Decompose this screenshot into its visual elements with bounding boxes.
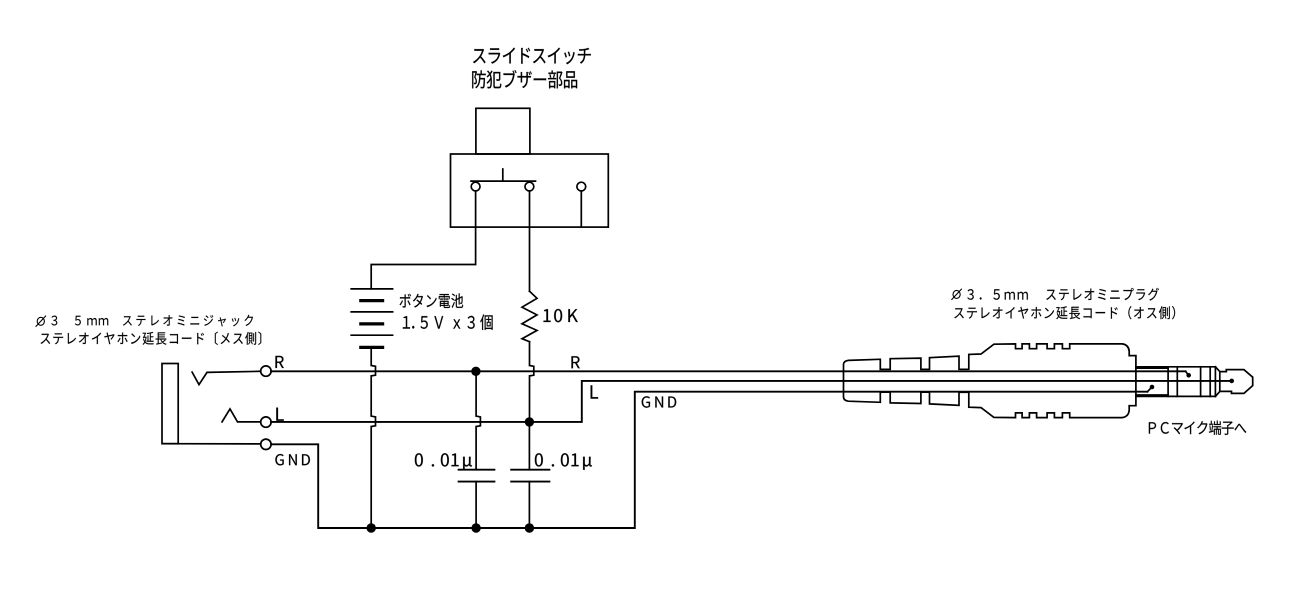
label: GND net (mid): [642, 396, 677, 407]
plug neck taper top: [1215, 367, 1219, 372]
plug neck taper bottom: [1215, 391, 1219, 396]
plug insulator ring line a: [1167, 367, 1169, 397]
battery BT1 cell2 short plate (-): [361, 322, 383, 325]
wire: jack body to GND terminal: [163, 443, 261, 445]
label: jack R terminal: [275, 356, 283, 368]
plug sleeve inner top line: [1136, 367, 1168, 369]
wire: C1 bottom to ground rail: [475, 482, 477, 528]
plug insulator ring line c: [1200, 367, 1202, 397]
junction node: R line / C1: [471, 367, 480, 376]
capacitor C1 top plate: [459, 469, 495, 471]
jack terminal GND: [261, 439, 271, 449]
battery BT1 cell1 long plate (+): [351, 288, 392, 290]
resistor R1 10K zigzag: [522, 291, 537, 342]
plug insulator ring line d: [1209, 367, 1211, 397]
label: resistor value 10K: [544, 309, 578, 322]
plug shaft top outline: [1136, 366, 1216, 368]
3.5mm stereo mini plug P1: cable boot and body outline: [844, 344, 1136, 418]
jack terminal L: [261, 417, 271, 427]
jack R spring contact (V): [192, 371, 261, 384]
switch terminal 2: [525, 182, 534, 191]
switch lever bar: [471, 180, 536, 182]
switch terminal 3 (unused): [577, 182, 586, 191]
battery BT1 cell2 long plate (+): [351, 311, 392, 313]
label: R net (mid): [571, 356, 579, 368]
plug sleeve inner bottom line: [1136, 394, 1168, 396]
node: L wire at plug tip: [1229, 379, 1234, 384]
node: R wire at plug ring: [1186, 373, 1191, 378]
label: plug title line2 (ステレオイヤホン延長コード オス側): [954, 306, 1175, 319]
wire: GND net into plug sleeve: [1147, 387, 1152, 392]
switch terminal 1 (common): [471, 182, 480, 191]
slide switch SW1 body: [451, 154, 609, 227]
label: battery value (1.5V x 3個): [403, 314, 493, 330]
node: GND wire at plug sleeve: [1150, 385, 1155, 390]
junction node: ground rail / C1: [471, 523, 480, 532]
wire: resistor bottom to L line (jumps R line): [530, 342, 534, 422]
slide switch SW1 actuator (top small rectangle): [476, 108, 530, 154]
wire: GND net from jack via bottom rail to plug sleeve: [271, 392, 1147, 528]
label: plug title line1 (3.5mm ステレオミニプラグ): [967, 288, 1159, 301]
wire: battery minus down to ground rail (jumps R and L lines): [371, 349, 375, 528]
label: L net (mid): [591, 385, 598, 398]
wire: L net from jack, step up, to plug tip: [271, 381, 1232, 422]
label: slide switch title line2 (防犯ブザー部品): [472, 70, 577, 88]
label: jack title line1 (3.5mm ステレオミニジャック): [51, 315, 253, 327]
plug shaft bottom outline: [1136, 395, 1216, 397]
label: slide switch title line1 (スライドスイッチ): [473, 48, 591, 65]
wire: C2 bottom to ground rail: [528, 482, 530, 528]
plug tip (L contact): [1220, 370, 1253, 394]
label: jack title line2 (ステレオイヤホン延長コード メス側): [41, 332, 262, 345]
wire: R net into plug ring: [1186, 371, 1189, 375]
wire: switch terminal3 stub: [580, 191, 582, 227]
jack L spring contact (^): [222, 409, 261, 422]
3.5mm stereo mini jack J1 body: [162, 364, 178, 444]
junction node: ground rail / C2: [525, 523, 534, 532]
battery BT1 cell3 long plate (+): [351, 334, 392, 336]
battery BT1 cell1 short plate (-): [361, 299, 383, 302]
wire: switch terminal2 down to resistor: [529, 191, 531, 291]
plug shaft right edge: [1214, 367, 1216, 397]
wire: C1 top from R line (jumps L line): [476, 376, 480, 470]
label: jack L terminal: [276, 408, 283, 421]
plug insulator ring line b: [1176, 367, 1178, 397]
diameter symbol (phi) of jack label: [36, 316, 46, 327]
label: capacitor C2 value 0.01u: [535, 453, 592, 470]
label: jack GND terminal: [275, 454, 310, 465]
diameter symbol (phi) of plug label: [951, 289, 961, 300]
capacitor C1 bottom plate: [459, 481, 495, 483]
wire: C2 top from L line: [528, 422, 530, 470]
label: PC mic jack note (PCマイク端子へ): [1149, 421, 1246, 435]
wire: switch terminal1 to battery top: [371, 191, 475, 289]
junction node: ground rail / battery: [367, 523, 376, 532]
label: capacitor C1 value 0.01u: [415, 453, 472, 470]
capacitor C2 bottom plate: [511, 481, 549, 483]
battery BT1 cell3 short plate (-): [361, 346, 383, 349]
wire: R net from jack to plug: [271, 370, 1185, 372]
label: battery name (ボタン電池): [400, 293, 464, 308]
switch lever tick: [502, 169, 504, 181]
capacitor C2 top plate: [511, 469, 549, 471]
jack terminal R: [261, 366, 271, 376]
junction node: L line / R1 / C2: [525, 417, 534, 426]
